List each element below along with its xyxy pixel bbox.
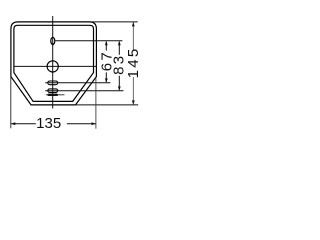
dim 135 arrow left xyxy=(11,122,15,125)
dim 135 line xyxy=(11,123,36,125)
dim 135 right extension line xyxy=(95,77,97,129)
svg-text:145: 145 xyxy=(125,46,142,78)
slot S1 leader line xyxy=(45,82,110,84)
leader line from small slot xyxy=(55,40,122,42)
horizontal centerline of circle xyxy=(14,65,97,67)
vertical centerline xyxy=(52,16,54,109)
slot S1 xyxy=(48,81,58,85)
top edge extension line xyxy=(89,21,137,23)
dim 145 arrow down xyxy=(132,100,135,104)
dim 67 arrow down xyxy=(105,78,108,82)
dim 135 arrow right xyxy=(92,122,96,125)
dim 145 arrow up xyxy=(132,22,135,26)
dim 83 arrow up xyxy=(118,41,121,45)
svg-text:135: 135 xyxy=(36,115,61,132)
dim 83 arrow down xyxy=(118,86,121,90)
dim 135 left extension line xyxy=(10,77,12,128)
small mounting slot (top, vertical) xyxy=(51,37,55,44)
fixture outer outline xyxy=(11,22,97,105)
slot S3 center line xyxy=(46,94,65,96)
bottom edge extension line xyxy=(76,104,139,106)
fixture inner outline xyxy=(14,25,94,101)
slot S2 xyxy=(48,89,58,93)
slot S2 leader line xyxy=(45,90,123,92)
dim 67 arrow up xyxy=(105,41,108,45)
slot S3 (thin) xyxy=(48,94,58,96)
dim 67 line xyxy=(105,42,107,51)
dim 83 line xyxy=(118,42,120,55)
center circle (wiring hole) xyxy=(47,61,58,72)
dim 145 line xyxy=(132,23,134,51)
